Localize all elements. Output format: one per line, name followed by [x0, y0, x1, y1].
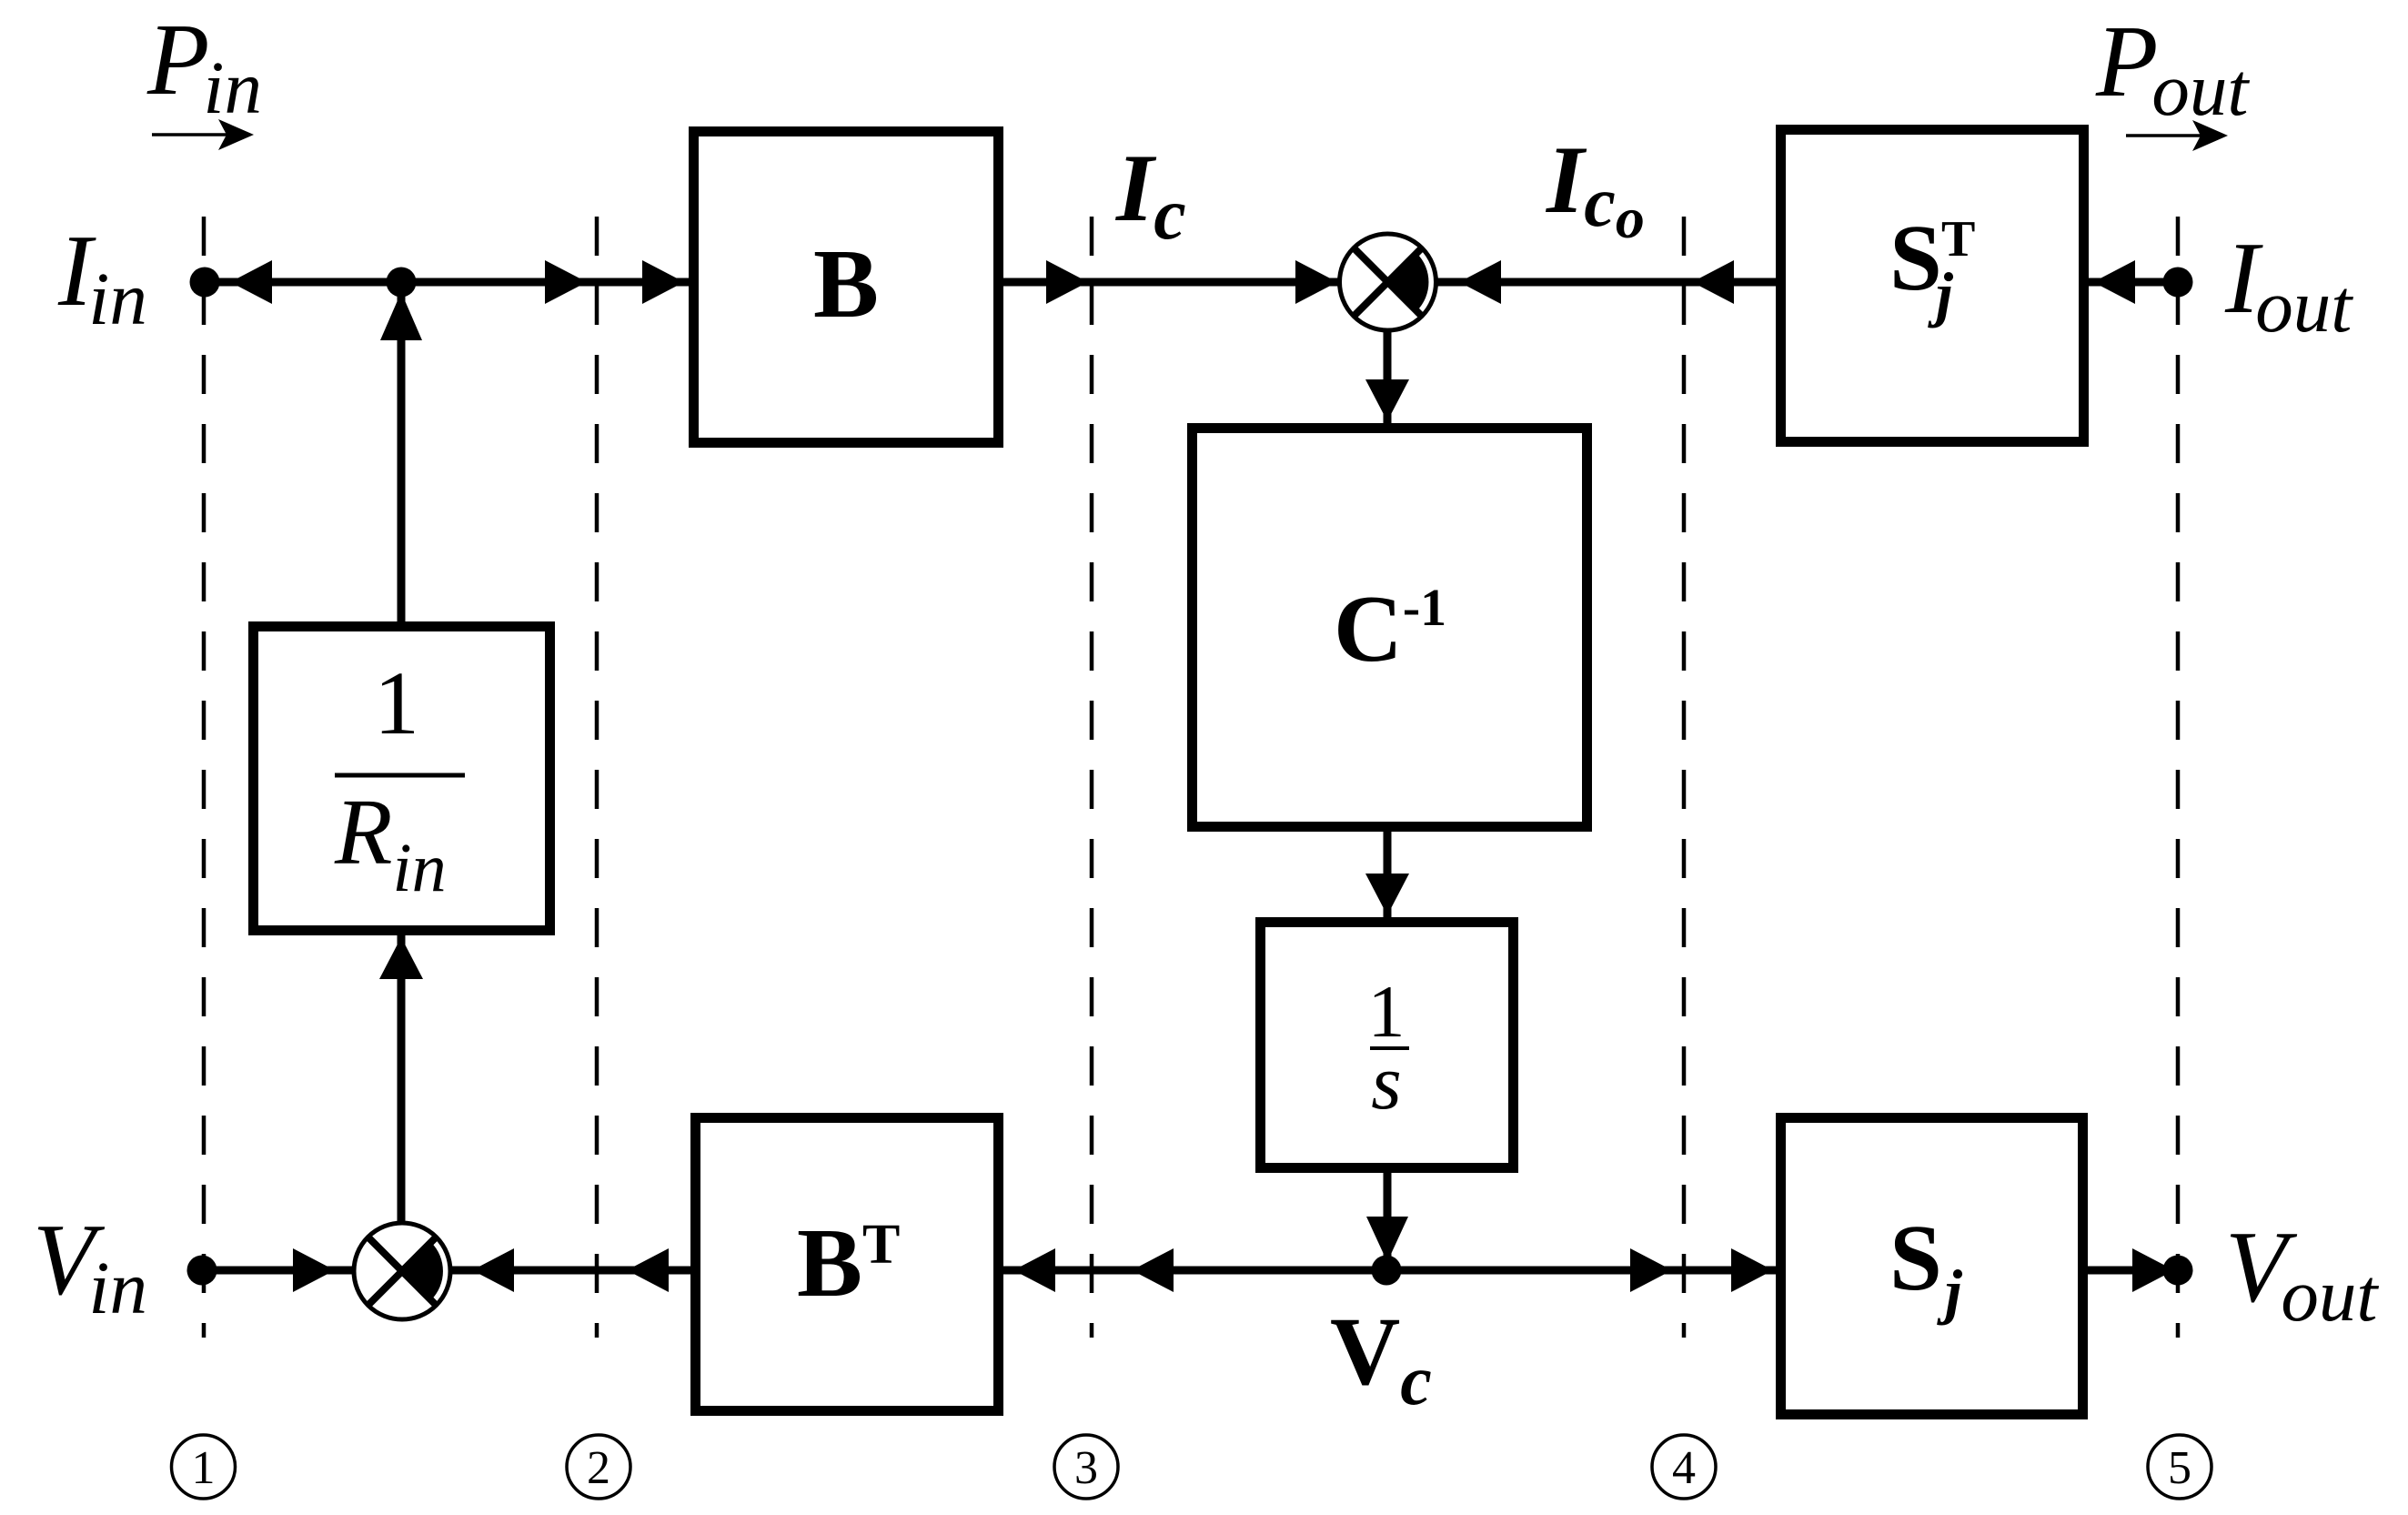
arrowhead right at X1 input [1295, 260, 1337, 304]
node Iin terminal dot [190, 268, 220, 298]
block 1/s [1261, 923, 1514, 1168]
svg-text:5: 5 [2168, 1442, 2191, 1494]
port number 5 [2148, 1435, 2212, 1499]
block SjT [1781, 130, 2084, 442]
arrowhead up at Rin bottom [379, 937, 423, 979]
arrowhead left at SjT right edge [2093, 260, 2135, 304]
wire Rin output up to junction [398, 282, 406, 621]
cut line 1 [202, 217, 207, 1338]
arrowhead down at Cinv top [1365, 379, 1409, 421]
arrowhead left near cut line 3 [1132, 1248, 1174, 1292]
svg-text:4: 4 [1672, 1442, 1696, 1494]
port number 4 [1652, 1435, 1716, 1499]
wire Cinv to 1/s [1384, 832, 1392, 917]
arrowhead up below junction [380, 292, 422, 340]
multiplier node X1 [1340, 234, 1436, 330]
arrowhead right before X2 [293, 1248, 335, 1292]
block 1/Rin fraction bar [335, 773, 465, 778]
arrowhead left at BT right edge [1013, 1248, 1055, 1292]
port number 1 [172, 1435, 236, 1499]
wire X2 to BT [448, 1267, 690, 1275]
cut line 2 [595, 217, 599, 1338]
block 1/Rin [254, 627, 550, 931]
svg-text:1: 1 [192, 1442, 216, 1494]
node Vin terminal dot [187, 1256, 217, 1286]
arrowhead left near X1 right side [1459, 260, 1501, 304]
svg-text:s: s [1371, 1038, 1401, 1126]
arrowhead right at Vout [2132, 1248, 2174, 1292]
wire X1 down to Cinv [1384, 329, 1392, 423]
multiplier node X2 [354, 1223, 450, 1319]
node junction above Rin [387, 268, 417, 298]
arrowhead right near cut line 4 bottom [1630, 1248, 1672, 1292]
svg-text:3: 3 [1074, 1442, 1098, 1494]
wire X1 to SjT [1435, 278, 1776, 287]
wire X2 up to Rin input [398, 935, 406, 1225]
node Iout terminal dot [2163, 268, 2193, 298]
arrowhead left near BT output [627, 1248, 669, 1292]
svg-text:S: S [1889, 1206, 1942, 1310]
svg-text:2: 2 [587, 1442, 610, 1494]
block 1/s fraction bar [1370, 1046, 1409, 1050]
wire Vin to multiplier X2 [202, 1267, 356, 1275]
block Sj [1781, 1118, 2083, 1415]
wire 1/s down to node Vc [1384, 1173, 1392, 1270]
port number 2 [567, 1435, 630, 1499]
cut line 5 [2176, 217, 2181, 1338]
arrow under Pout [2126, 134, 2205, 137]
wire BT to Sj through node Vc [1003, 1267, 1776, 1275]
node Vc junction dot [1372, 1256, 1402, 1286]
arrowhead right on junction-B wire [545, 260, 587, 304]
svg-text:S: S [1889, 206, 1942, 310]
block B [694, 132, 999, 443]
cut line 4 [1682, 217, 1687, 1338]
block BT [696, 1118, 999, 1411]
wire Iin to junction [205, 278, 689, 287]
arrowhead down at node Vc [1366, 1217, 1408, 1262]
port number 3 [1054, 1435, 1118, 1499]
arrowhead left at X2 right side [472, 1248, 514, 1292]
arrowhead right at Sj input [1731, 1248, 1773, 1292]
wire SjT to Iout [2089, 278, 2178, 287]
cut line 3 [1090, 217, 1094, 1338]
arrow under Pin [152, 133, 231, 136]
block Cinv [1193, 429, 1587, 827]
svg-text:1: 1 [374, 652, 419, 753]
arrowhead left near cut line 4 [1692, 260, 1734, 304]
wire Sj to Vout [2088, 1267, 2178, 1275]
svg-text:B: B [813, 230, 879, 338]
arrowhead right after B output [1046, 260, 1088, 304]
node Vout terminal dot [2163, 1256, 2193, 1286]
arrowhead right at B input [642, 260, 684, 304]
arrowhead down at 1/s top [1365, 874, 1409, 915]
arrowhead left toward Iin [230, 260, 272, 304]
wire B output to multiplier X1 [1003, 278, 1341, 287]
